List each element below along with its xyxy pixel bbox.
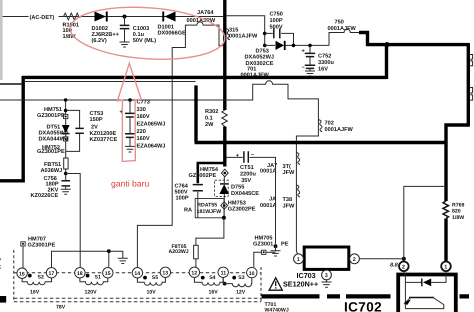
wire thin frame right — [404, 186, 446, 258]
svg-text:2200u: 2200u — [240, 171, 256, 177]
winding S4 — [194, 275, 223, 295]
svg-text:17: 17 — [49, 271, 55, 277]
capacitor C764 — [175, 183, 203, 218]
svg-text:50V (ML): 50V (ML) — [133, 37, 156, 44]
svg-text:HM705: HM705 — [255, 235, 273, 241]
capacitor C773 stack — [120, 98, 166, 152]
IC702 optocoupler box — [398, 262, 456, 312]
svg-text:S5: S5 — [152, 275, 158, 281]
svg-text:11: 11 — [221, 271, 227, 277]
svg-text:500V: 500V — [175, 190, 188, 196]
connector tab right lower — [470, 88, 473, 101]
svg-text:16: 16 — [19, 271, 25, 277]
thick bus vertical x224.8 lower — [223, 127, 226, 167]
svg-text:R302: R302 — [205, 109, 218, 115]
svg-text:13: 13 — [162, 271, 168, 277]
svg-text:2W: 2W — [205, 122, 214, 128]
svg-text:DX0066GE: DX0066GE — [158, 31, 187, 37]
black bus stub bottom left — [0, 296, 6, 303]
svg-text:16V: 16V — [318, 66, 328, 72]
svg-text:330: 330 — [137, 107, 146, 113]
diode D1002 — [92, 12, 120, 45]
svg-text:820: 820 — [452, 209, 461, 215]
svg-text:35V: 35V — [241, 178, 251, 184]
svg-text:16V: 16V — [30, 290, 40, 296]
svg-text:0.1: 0.1 — [205, 116, 213, 122]
symbol HM753 — [221, 200, 256, 216]
warning triangle — [269, 278, 282, 290]
svg-text:IC702: IC702 — [344, 300, 382, 312]
box RDAT55 — [184, 199, 224, 218]
wire pin17 up and ground — [52, 251, 123, 267]
red arrow annotation — [117, 63, 141, 161]
capacitor C756 — [62, 181, 71, 186]
diode D755 dashed box — [215, 177, 260, 202]
svg-text:SE120N++: SE120N++ — [283, 280, 318, 289]
symbol HM754 — [189, 167, 229, 179]
HM705 group — [253, 235, 289, 267]
diode DT51 — [62, 125, 70, 133]
capacitor C752 — [302, 45, 335, 76]
wire AC-DET main top wire — [3, 16, 224, 18]
svg-text:(6.2V): (6.2V) — [92, 37, 107, 44]
resistor R1001 — [62, 13, 81, 20]
symbol HM752 — [64, 137, 68, 141]
T701 bottom double dashed line — [14, 298, 261, 302]
fuse F8T05 — [169, 244, 199, 267]
svg-text:R769: R769 — [452, 203, 465, 209]
svg-text:CT51: CT51 — [240, 165, 254, 171]
svg-text:702: 702 — [325, 120, 334, 126]
node junction to pin18 wire — [64, 172, 68, 176]
svg-text:750: 750 — [335, 19, 344, 25]
svg-text:EZA064WJ: EZA064WJ — [137, 143, 166, 149]
svg-text:315: 315 — [229, 28, 238, 34]
diode D1001 — [158, 12, 187, 37]
svg-text:S2: S2 — [38, 275, 44, 281]
svg-text:JFW: JFW — [283, 204, 296, 210]
svg-text:KZ0377CE: KZ0377CE — [90, 137, 118, 143]
capacitor CT53 loop — [66, 110, 80, 151]
svg-text:A203WJ: A203WJ — [169, 249, 189, 255]
svg-text:D755: D755 — [231, 185, 244, 191]
winding S5 — [137, 275, 165, 295]
svg-text:PE: PE — [281, 242, 289, 248]
svg-text:0001A: 0001A — [260, 169, 276, 175]
big module box top edge — [22, 76, 387, 79]
svg-text:1/8W: 1/8W — [452, 215, 464, 221]
resistor R302 — [222, 110, 228, 127]
IC703 regulator SE120N — [283, 247, 359, 289]
transformer T701 dashed box right edge — [260, 267, 262, 302]
svg-text:500V: 500V — [270, 24, 283, 30]
thick mid bus full line — [195, 141, 446, 144]
svg-text:EZA065WJ: EZA065WJ — [137, 122, 166, 128]
svg-text:GZ3001PE: GZ3001PE — [37, 149, 65, 155]
node junction C750 tap — [263, 32, 267, 36]
thick bar x196 — [194, 85, 197, 142]
svg-text:2V: 2V — [91, 124, 98, 130]
thick branch to C764 — [198, 163, 226, 183]
connector 702 bump — [318, 120, 322, 132]
svg-text:JA764: JA764 — [197, 10, 214, 16]
wire stair to JA764 connector — [172, 22, 223, 78]
winding S3 — [223, 275, 252, 295]
capacitor C1003 — [120, 15, 157, 48]
thick dashed bus bottom — [262, 294, 470, 298]
svg-text:150P: 150P — [90, 117, 103, 123]
wire top-right feed — [226, 16, 265, 46]
svg-text:RDAT55: RDAT55 — [197, 202, 217, 208]
svg-text:10V: 10V — [147, 290, 157, 296]
thick right edge vertical — [467, 43, 470, 125]
svg-text:GZ3001PE: GZ3001PE — [28, 242, 56, 248]
thick corner to R769 line — [446, 125, 470, 201]
svg-text:100P: 100P — [176, 196, 189, 202]
svg-text:GZ3002PE: GZ3002PE — [189, 173, 217, 179]
wire to C752 node — [294, 44, 330, 46]
svg-text:C764: C764 — [175, 183, 189, 189]
resistor R769 — [443, 201, 449, 218]
connector 750 bump — [329, 29, 359, 45]
svg-text:0001AJFW: 0001AJFW — [325, 127, 354, 133]
svg-text:T38: T38 — [283, 197, 293, 203]
connector 315 squiggle — [227, 29, 230, 40]
svg-text:220: 220 — [137, 129, 146, 135]
symbol HM751 — [64, 114, 68, 118]
svg-text:C750: C750 — [270, 12, 283, 18]
svg-text:C752: C752 — [318, 54, 331, 60]
transformer T701 dashed box left edge — [13, 250, 15, 302]
winding S1 — [80, 274, 108, 296]
svg-text:18: 18 — [77, 271, 83, 277]
LED inside optocoupler — [404, 271, 422, 309]
svg-text:15: 15 — [105, 271, 111, 277]
wire thin parallel under box top — [24, 81, 196, 83]
connector T38 bump — [296, 185, 300, 197]
diode D753 — [241, 41, 294, 79]
svg-text:14: 14 — [134, 271, 140, 277]
svg-text:0001A: 0001A — [260, 203, 276, 209]
svg-text:JFW: JFW — [283, 170, 296, 176]
svg-text:S1: S1 — [95, 275, 101, 281]
node junction below RDAT55 — [222, 216, 226, 220]
svg-text:S3: S3 — [238, 275, 244, 281]
connector 3T bump — [296, 153, 300, 165]
svg-text:12V: 12V — [236, 290, 246, 296]
wire W1 horizontal — [0, 81, 318, 254]
svg-text:DXA052WJ: DXA052WJ — [245, 55, 275, 61]
svg-text:160V: 160V — [137, 114, 150, 120]
svg-text:100P: 100P — [270, 18, 283, 24]
transformer pin row dashes — [14, 272, 261, 274]
svg-text:C773: C773 — [137, 100, 150, 106]
svg-text:16V: 16V — [209, 290, 219, 296]
node junction W1 tap — [64, 98, 68, 102]
svg-text:2: 2 — [402, 265, 405, 271]
svg-text:D753: D753 — [256, 49, 269, 55]
svg-text:181WJFW: 181WJFW — [197, 209, 222, 215]
svg-text:HM753: HM753 — [228, 200, 246, 206]
svg-text:W4740WJ: W4740WJ — [265, 308, 289, 312]
connector tab right upper — [470, 55, 473, 66]
svg-text:3300u: 3300u — [318, 60, 334, 66]
thick wire R769 to IC702 pin1 — [444, 219, 447, 262]
svg-text:S4: S4 — [209, 275, 215, 281]
capacitor C750 — [265, 12, 294, 46]
svg-text:ganti baru: ganti baru — [111, 179, 149, 189]
svg-text:120V: 120V — [85, 290, 98, 296]
svg-text:GZ3002PE: GZ3002PE — [228, 207, 256, 213]
svg-text:1: 1 — [444, 265, 447, 271]
thick wire top right — [359, 33, 468, 80]
svg-text:12: 12 — [191, 271, 197, 277]
wire to transformer pin18 — [66, 174, 81, 268]
svg-text:3: 3 — [325, 273, 328, 279]
capacitor CT51 — [227, 151, 276, 244]
svg-text:2: 2 — [353, 257, 356, 263]
thick bus vertical x224.8 — [223, 0, 226, 110]
svg-text:GZ3001PE: GZ3001PE — [37, 113, 65, 119]
winding S2 — [22, 274, 51, 296]
svg-text:0001AJFW: 0001AJFW — [328, 26, 357, 32]
red ellipse annotation — [68, 2, 226, 64]
svg-text:8.8: 8.8 — [390, 263, 399, 269]
wire jog to fuse F8T05 — [196, 218, 224, 246]
svg-text:A036WJ: A036WJ — [41, 168, 63, 174]
svg-text:0001AJFW: 0001AJFW — [229, 34, 258, 40]
svg-text:KZ0226CE: KZ0226CE — [31, 193, 59, 199]
transformer pins circles — [17, 267, 257, 278]
svg-text:160V: 160V — [137, 136, 150, 142]
transistor inside optocoupler — [409, 297, 434, 299]
svg-text:1: 1 — [297, 257, 300, 263]
svg-text:GZ3001: GZ3001 — [253, 242, 273, 248]
big module box left edge — [0, 76, 23, 181]
grey scan edge strip — [0, 0, 3, 80]
wire IC703 pin2 to IC702 — [359, 258, 403, 260]
wire vertical x172 down to pin14 jog — [137, 78, 172, 268]
svg-text:(AC-DET): (AC-DET) — [30, 14, 55, 21]
svg-text:78V: 78V — [56, 304, 66, 310]
fuse FBT51 — [64, 158, 68, 169]
HM707 group — [21, 237, 56, 269]
svg-text:RA: RA — [184, 208, 192, 214]
svg-text:DX0445CE: DX0445CE — [231, 191, 259, 197]
svg-text:10: 10 — [249, 271, 255, 277]
